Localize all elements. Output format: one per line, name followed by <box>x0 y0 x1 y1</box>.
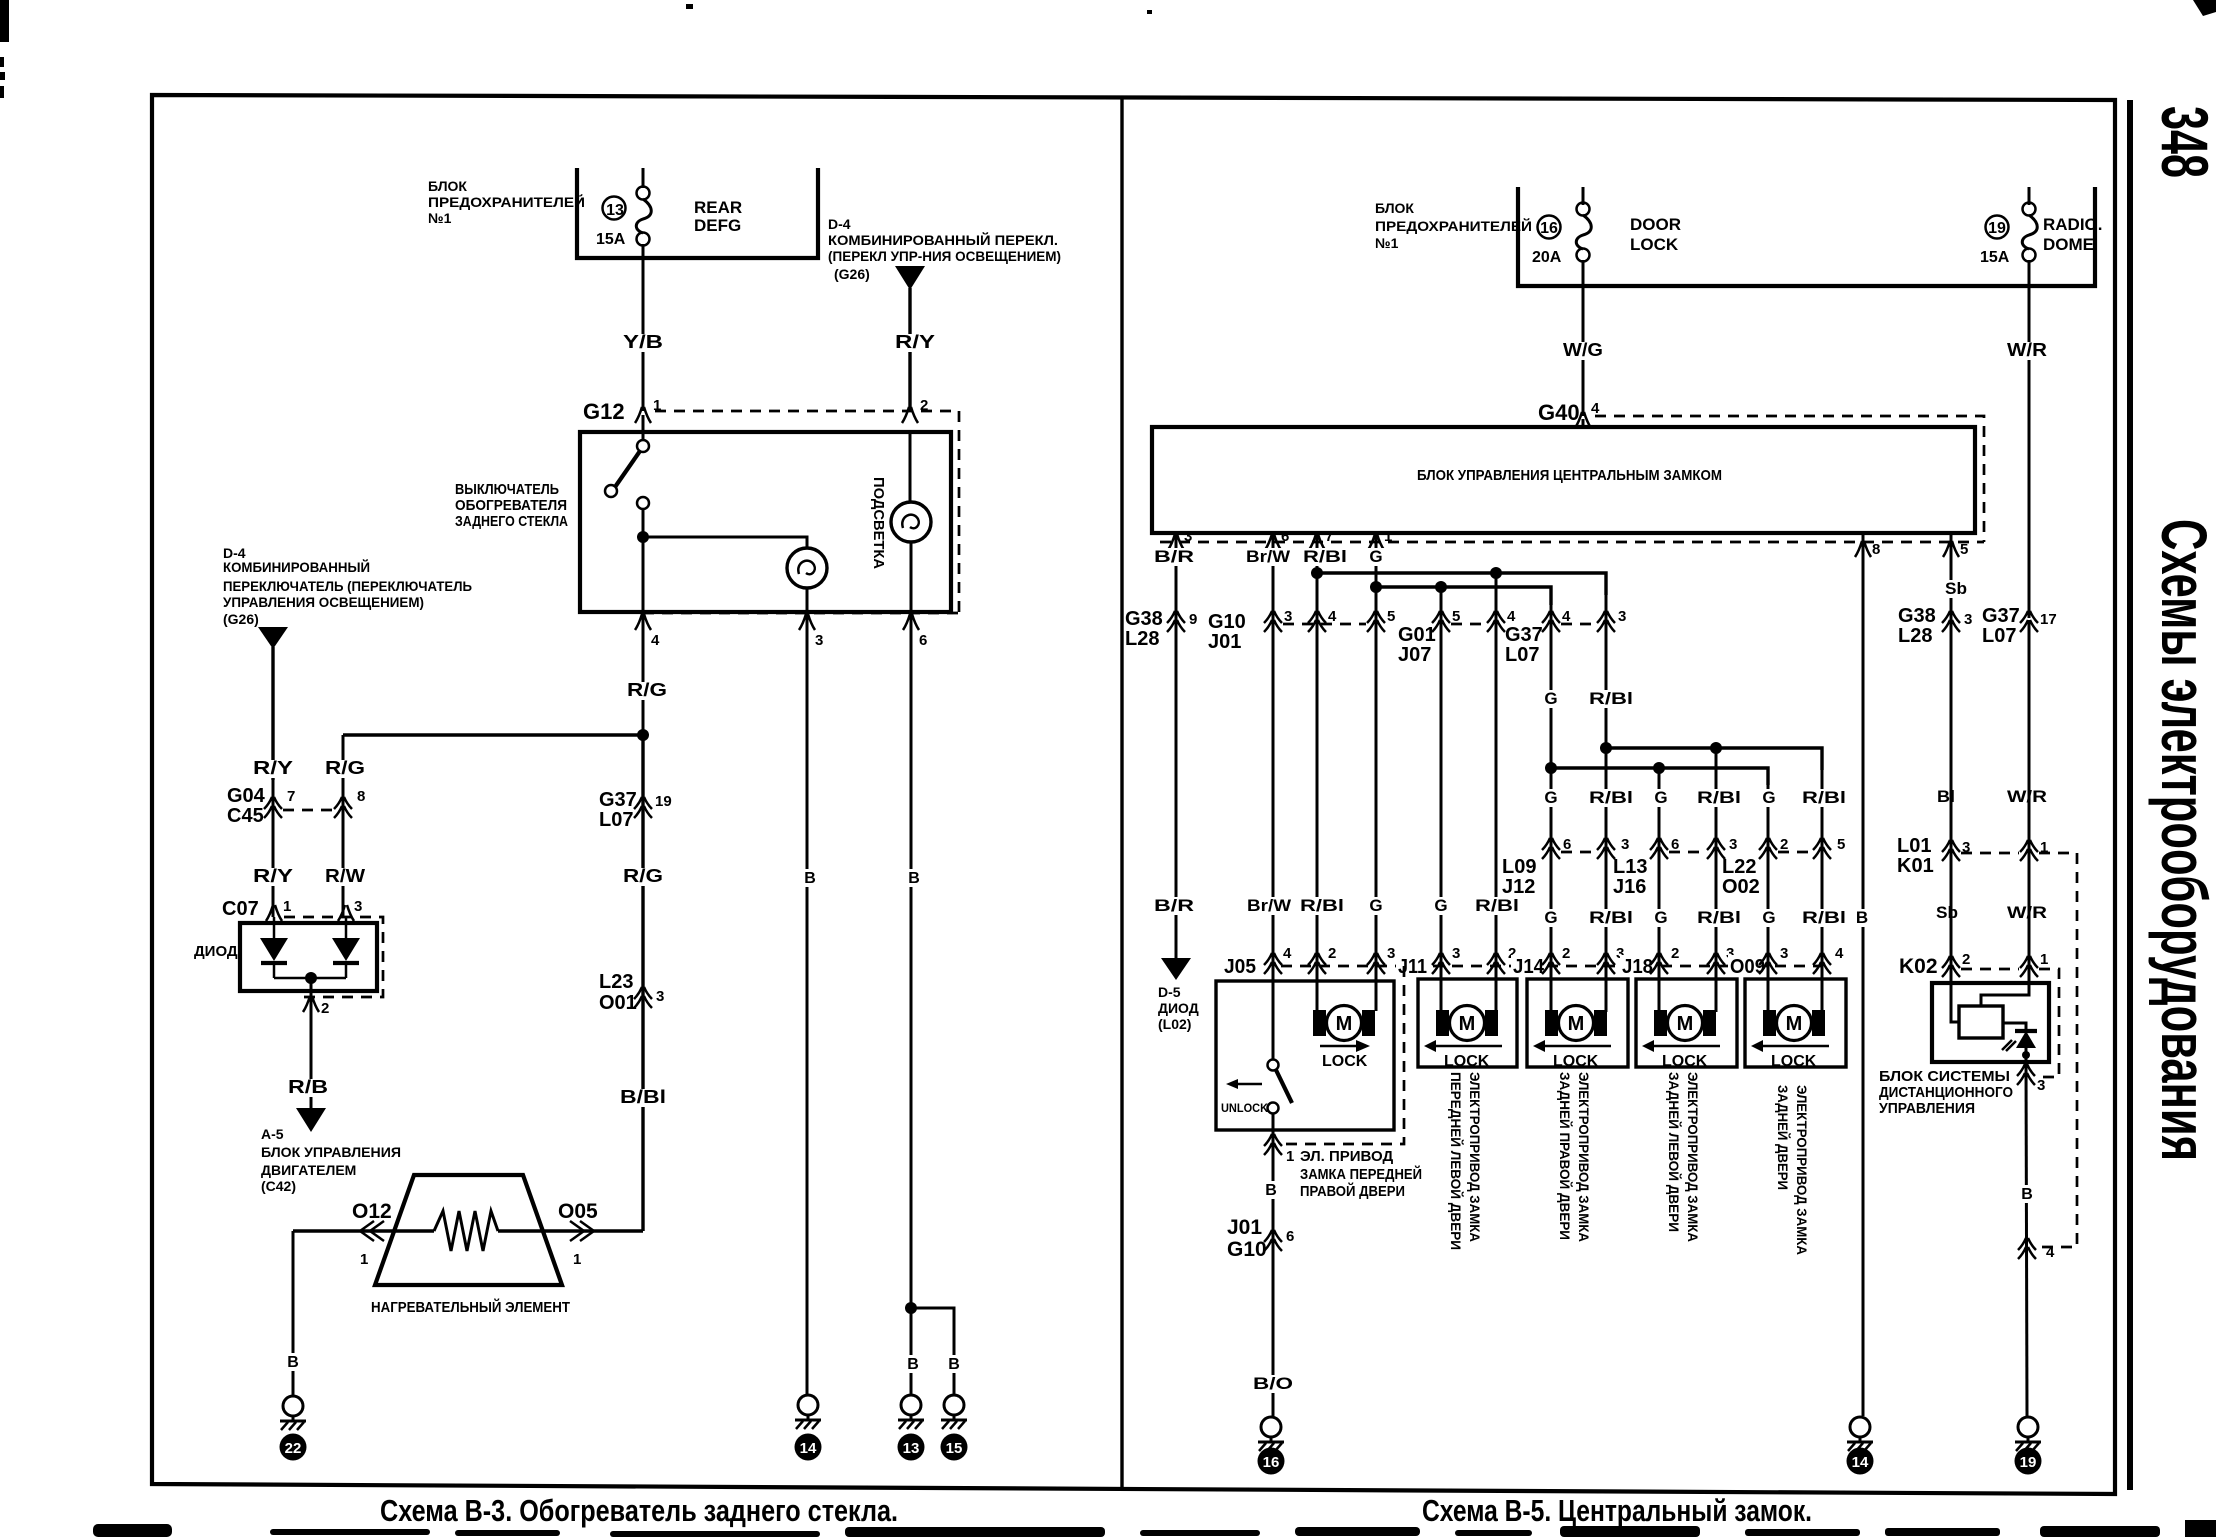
svg-text:G: G <box>1369 547 1382 566</box>
svg-text:ПРЕДОХРАНИТЕЛЕЙ: ПРЕДОХРАНИТЕЛЕЙ <box>1375 217 1532 234</box>
svg-text:(G26): (G26) <box>223 611 259 627</box>
svg-text:Схемы электрооборудования: Схемы электрооборудования <box>2148 519 2216 1161</box>
L22/O02 pin 2 <box>1759 838 1777 859</box>
svg-text:R/W: R/W <box>325 866 365 886</box>
wire G drop (J18 pin2) <box>1658 768 1661 1012</box>
svg-text:15A: 15A <box>1980 249 2010 266</box>
wire label B <box>1260 1181 1282 1199</box>
svg-text:G: G <box>1762 788 1775 807</box>
box pin 6 <box>1265 534 1281 550</box>
L01/K01 pin 1 <box>2020 840 2038 861</box>
svg-text:(C42): (C42) <box>261 1178 296 1194</box>
rotated label actuator rear left door <box>1666 1072 1701 1242</box>
svg-text:G10: G10 <box>1227 1238 1267 1261</box>
svg-text:1: 1 <box>360 1251 368 1268</box>
fuse wire stubs <box>643 168 2029 287</box>
O09 pin 3 <box>1759 953 1777 974</box>
svg-text:G12: G12 <box>583 399 625 424</box>
wire Bl label <box>1934 788 1958 806</box>
svg-text:19: 19 <box>2020 1454 2037 1471</box>
svg-text:B: B <box>2021 1186 2033 1203</box>
motor connector row dashed line <box>1281 965 1822 968</box>
svg-text:ПОДСВЕТКА: ПОДСВЕТКА <box>870 477 887 569</box>
fuse 13 symbol <box>636 187 651 246</box>
svg-text:1: 1 <box>283 898 291 915</box>
svg-text:LOCK: LOCK <box>1553 1053 1599 1070</box>
dashed link K02 and boundary <box>1961 969 2059 1077</box>
svg-text:3: 3 <box>1780 945 1788 962</box>
svg-text:ПРЕДОХРАНИТЕЛЕЙ: ПРЕДОХРАНИТЕЛЕЙ <box>428 193 585 210</box>
connector pin 1 <box>635 407 651 423</box>
svg-text:B/R: B/R <box>1154 547 1194 566</box>
wire B to connector 4 <box>2026 1062 2027 1416</box>
motor box J11 <box>1418 979 1517 1067</box>
svg-text:2: 2 <box>1671 945 1679 962</box>
defogger switch box <box>580 432 951 612</box>
svg-text:ДИОД: ДИОД <box>194 943 238 960</box>
fuse 19 symbol <box>2022 203 2037 262</box>
svg-text:20A: 20A <box>1532 249 1562 266</box>
wire R/Bl drop (O09 pin4) <box>1821 770 1824 1012</box>
svg-text:ЭЛЕКТРОПРИВОД ЗАМКА: ЭЛЕКТРОПРИВОД ЗАМКА <box>1467 1072 1483 1242</box>
svg-text:Y/B: Y/B <box>623 332 663 352</box>
junction dot G bus 2 <box>1370 581 1382 593</box>
svg-text:9: 9 <box>1189 611 1197 628</box>
svg-text:R/Bl: R/Bl <box>1589 689 1633 708</box>
svg-text:4: 4 <box>651 632 660 649</box>
dashed link L01/K01 and boundary <box>1961 853 2077 1247</box>
wire R/Y down from arrow <box>271 647 274 780</box>
L09/J12 pin 3 <box>1597 838 1615 859</box>
svg-text:G: G <box>1762 908 1775 927</box>
svg-text:RADIO.: RADIO. <box>2043 215 2103 234</box>
wire label Y/B <box>620 334 666 352</box>
wire B from pin 6 to ground 13 <box>910 612 913 1396</box>
svg-text:W/R: W/R <box>2007 340 2047 360</box>
wire G drop (O09 pin3) <box>1767 785 1770 1012</box>
svg-text:3: 3 <box>354 898 362 915</box>
svg-text:1: 1 <box>2040 951 2048 968</box>
diode 1 <box>273 917 276 938</box>
svg-text:G40: G40 <box>1538 400 1580 425</box>
svg-text:G: G <box>1434 896 1447 915</box>
G distribution bus 4 <box>1551 768 1768 785</box>
svg-text:Br/W: Br/W <box>1247 896 1292 915</box>
svg-text:3: 3 <box>1964 611 1972 628</box>
wire label W/R <box>2004 342 2050 360</box>
dashed link L22/O02 <box>1778 851 1812 854</box>
svg-text:17: 17 <box>2040 611 2057 628</box>
G distribution bus 2 <box>1376 587 1551 605</box>
svg-text:R/G: R/G <box>627 680 667 700</box>
indicator bulb <box>787 548 827 588</box>
connector G37/L07 pin 19 <box>634 797 652 818</box>
svg-text:J18: J18 <box>1622 956 1653 978</box>
svg-text:ЭЛЕКТРОПРИВОД ЗАМКА: ЭЛЕКТРОПРИВОД ЗАМКА <box>1576 1072 1592 1242</box>
diode 2 <box>345 917 348 938</box>
dashed link G10/J01 <box>1283 623 1366 626</box>
svg-text:6: 6 <box>919 632 927 649</box>
svg-text:3: 3 <box>1621 836 1629 853</box>
svg-text:LOCK: LOCK <box>1771 1053 1817 1070</box>
svg-text:J01: J01 <box>1227 1216 1262 1239</box>
heater resistor zigzag <box>434 1211 498 1251</box>
O09 pin 4 <box>1813 953 1831 974</box>
svg-text:3: 3 <box>2037 1077 2045 1094</box>
svg-text:LOCK: LOCK <box>1630 235 1679 254</box>
branch wire to ground 15 <box>911 1308 954 1396</box>
svg-text:G37: G37 <box>599 789 637 811</box>
svg-text:R/G: R/G <box>325 758 365 778</box>
svg-text:3: 3 <box>1387 945 1395 962</box>
box pin 7 <box>1309 534 1325 550</box>
svg-text:№1: №1 <box>428 210 452 226</box>
motor M rear door <box>1763 1006 1825 1041</box>
G38/L28 right pin 3 <box>1942 611 1960 632</box>
svg-text:LOCK: LOCK <box>1322 1053 1368 1070</box>
svg-text:4: 4 <box>1507 608 1516 625</box>
svg-text:B: B <box>804 870 816 887</box>
wire G <box>1375 533 1378 966</box>
connector O09 name <box>1728 955 1766 977</box>
wire W/G fuse 16 to G40 <box>1582 286 1585 416</box>
ground 16 <box>1258 1417 1284 1451</box>
scan specks top <box>686 4 693 9</box>
main R/G trunk down <box>641 735 644 1231</box>
svg-text:UNLOCK: UNLOCK <box>1221 1101 1268 1115</box>
scan artifact bottom blobs <box>93 1524 172 1537</box>
svg-text:LOCK: LOCK <box>1662 1053 1708 1070</box>
svg-text:C45: C45 <box>227 805 264 827</box>
svg-text:L01: L01 <box>1897 835 1931 857</box>
svg-text:19: 19 <box>1988 220 2006 237</box>
svg-text:УПРАВЛЕНИЯ: УПРАВЛЕНИЯ <box>1879 1100 1975 1117</box>
switch contact bottom <box>637 497 649 509</box>
connector pin 2 <box>902 407 918 423</box>
divider between schematic B-3 and B-5 <box>1120 97 1123 1488</box>
wire W/R label <box>2004 788 2050 806</box>
svg-text:G38: G38 <box>1125 608 1163 630</box>
svg-text:4: 4 <box>1562 608 1571 625</box>
svg-text:ЗАДНЕЙ ДВЕРИ: ЗАДНЕЙ ДВЕРИ <box>1775 1085 1792 1190</box>
svg-text:2: 2 <box>1328 945 1336 962</box>
svg-text:B: B <box>1265 1182 1277 1199</box>
svg-text:БЛОК УПРАВЛЕНИЯ ЦЕНТРАЛЬНЫМ ЗА: БЛОК УПРАВЛЕНИЯ ЦЕНТРАЛЬНЫМ ЗАМКОМ <box>1417 467 1722 484</box>
wire label R/G <box>624 682 670 700</box>
motor box J14 <box>1527 979 1628 1067</box>
svg-text:LOCK: LOCK <box>1444 1053 1490 1070</box>
wire labels row above L09 connectors <box>1540 789 1562 807</box>
switch arm pivot circle <box>605 485 617 497</box>
dashed link G01/J07 <box>1451 623 1486 626</box>
svg-text:L22: L22 <box>1722 856 1756 878</box>
svg-text:348: 348 <box>2148 106 2216 178</box>
G37/L07 pin 4 <box>1542 611 1560 632</box>
fuse 16 circled number <box>1538 216 1561 239</box>
svg-text:НАГРЕВАТЕЛЬНЫЙ ЭЛЕМЕНТ: НАГРЕВАТЕЛЬНЫЙ ЭЛЕМЕНТ <box>371 1298 570 1316</box>
wire R/Y from D-4 arrow to switch pin 2 <box>908 288 911 411</box>
svg-text:W/R: W/R <box>2007 903 2047 922</box>
wire R/Bl drop (J14 pin3) <box>1605 590 1608 1012</box>
svg-text:ЭЛЕКТРОПРИВОД ЗАМКА: ЭЛЕКТРОПРИВОД ЗАМКА <box>1794 1085 1810 1255</box>
dashed connector outline of G12 <box>643 411 959 613</box>
dashed connector boundary right of J05 <box>1284 966 1404 1144</box>
svg-text:ДИСТАНЦИОННОГО: ДИСТАНЦИОННОГО <box>1879 1084 2013 1101</box>
motor M front right <box>1313 1006 1375 1041</box>
svg-text:K02: K02 <box>1899 955 1938 978</box>
connector J18 name <box>1620 955 1654 977</box>
svg-text:G01: G01 <box>1398 624 1436 646</box>
svg-text:G38: G38 <box>1898 605 1936 627</box>
svg-text:ОБОГРЕВАТЕЛЯ: ОБОГРЕВАТЕЛЯ <box>455 497 567 514</box>
connector pin 4 below box <box>635 614 651 630</box>
connector J11 name <box>1396 955 1429 977</box>
svg-text:R/B: R/B <box>288 1077 328 1097</box>
illumination bulb (podsvetka) <box>891 502 931 542</box>
connector pin 3 below box <box>799 614 815 630</box>
svg-text:3: 3 <box>1184 528 1192 545</box>
D-4 feed arrow (solid triangle) <box>895 266 925 290</box>
ground 15 <box>941 1395 967 1429</box>
wire bulb to pin 3 <box>806 588 809 612</box>
svg-text:16: 16 <box>1540 220 1558 237</box>
wire R/Bl drop (J11 pin2) <box>1495 573 1498 966</box>
svg-text:7: 7 <box>287 788 295 805</box>
wire R/G from pin 4 <box>642 612 645 735</box>
wire label R/B <box>285 1079 331 1097</box>
fuse box outline <box>1518 187 2095 286</box>
svg-text:R/Bl: R/Bl <box>1589 788 1633 807</box>
svg-text:ДИОД: ДИОД <box>1158 1000 1199 1016</box>
svg-text:K01: K01 <box>1897 855 1934 877</box>
svg-text:R/Bl: R/Bl <box>1475 896 1519 915</box>
internal wire to diode <box>2003 1023 2026 1031</box>
rotated label actuator rear door <box>1775 1085 1810 1255</box>
svg-text:2: 2 <box>321 1000 329 1017</box>
svg-text:БЛОК: БЛОК <box>428 178 467 194</box>
svg-text:B: B <box>287 1354 299 1371</box>
ground 22 <box>280 1396 306 1430</box>
svg-text:Sb: Sb <box>1945 579 1967 598</box>
ground 14 right <box>1847 1417 1873 1451</box>
svg-text:G37: G37 <box>1982 605 2020 627</box>
svg-text:R/Y: R/Y <box>253 758 293 778</box>
heater element trapezoid <box>375 1175 562 1285</box>
svg-text:14: 14 <box>800 1440 817 1457</box>
svg-text:L07: L07 <box>1982 625 2016 647</box>
svg-text:5: 5 <box>1960 541 1968 558</box>
G01/J07 pin 5 <box>1432 611 1450 632</box>
svg-text:1: 1 <box>1286 1148 1294 1165</box>
svg-text:ДВИГАТЕЛЕМ: ДВИГАТЕЛЕМ <box>261 1162 356 1178</box>
wire B pin 8 <box>1862 533 1865 1416</box>
key switch wire <box>1272 966 1275 1060</box>
motor box J18 <box>1636 979 1737 1067</box>
svg-text:R/Bl: R/Bl <box>1589 908 1633 927</box>
key switch contact <box>1268 1103 1279 1114</box>
svg-text:ПЕРЕКЛЮЧАТЕЛЬ (ПЕРЕКЛЮЧАТЕЛЬ: ПЕРЕКЛЮЧАТЕЛЬ (ПЕРЕКЛЮЧАТЕЛЬ <box>223 578 472 594</box>
fuse 19 circled number <box>1986 216 2009 239</box>
svg-text:1: 1 <box>1384 528 1392 545</box>
svg-text:B/R: B/R <box>1154 896 1194 915</box>
L13/J16 pin 3 <box>1707 838 1725 859</box>
G37/L07 right pin 17 <box>2020 611 2038 632</box>
svg-text:8: 8 <box>1872 541 1880 558</box>
svg-text:2: 2 <box>1562 945 1570 962</box>
svg-text:R/Y: R/Y <box>253 866 293 886</box>
junction dot on bus 3 <box>1710 742 1722 754</box>
svg-text:ЗАДНЕЙ ЛЕВОЙ ДВЕРИ: ЗАДНЕЙ ЛЕВОЙ ДВЕРИ <box>1666 1072 1683 1232</box>
switch arm <box>615 451 640 487</box>
fuse box No1 outline <box>577 168 818 258</box>
wire to J05 pin 1 <box>1272 1113 1275 1227</box>
svg-text:4: 4 <box>1835 945 1844 962</box>
L13/J16 pin 6 <box>1650 838 1668 859</box>
J11 pin 3 <box>1432 953 1450 974</box>
svg-text:4: 4 <box>1591 400 1600 417</box>
internal wire pin1 <box>1981 965 2029 1006</box>
svg-text:(L02): (L02) <box>1158 1016 1191 1032</box>
wire G drop (J14 pin2) <box>1550 595 1553 1012</box>
sidebar separator thick line <box>2127 100 2133 1490</box>
connector L23/O01 pin 3 <box>634 987 652 1008</box>
dashed outline of central lock unit connector <box>1160 416 1984 542</box>
svg-text:O01: O01 <box>599 992 637 1014</box>
connector G04/C45 pin 8 <box>334 797 352 818</box>
svg-text:ЭЛ. ПРИВОД: ЭЛ. ПРИВОД <box>1300 1148 1393 1165</box>
svg-text:ЭЛЕКТРОПРИВОД ЗАМКА: ЭЛЕКТРОПРИВОД ЗАМКА <box>1685 1072 1701 1242</box>
heater feed wire left <box>293 1229 434 1232</box>
dashed outline diode connector <box>284 917 383 997</box>
svg-text:R/G: R/G <box>623 866 663 886</box>
C07 pin 3 <box>338 905 354 921</box>
motor M rear right <box>1545 1006 1607 1041</box>
motor M rear left <box>1654 1006 1716 1041</box>
wire labels G / R/Bl above bus 3-4 <box>1540 690 1562 708</box>
svg-text:8: 8 <box>357 788 365 805</box>
J05 pin 2 <box>1308 953 1326 974</box>
wire label R/Y <box>250 760 296 778</box>
ground 14 <box>795 1395 821 1429</box>
svg-text:J14: J14 <box>1513 956 1545 978</box>
G37/L07 pin 3 <box>1597 611 1615 632</box>
svg-text:G: G <box>1544 689 1557 708</box>
svg-text:R/Bl: R/Bl <box>1697 908 1741 927</box>
junction dot R/G branch <box>637 729 649 741</box>
svg-text:ВЫКЛЮЧАТЕЛЬ: ВЫКЛЮЧАТЕЛЬ <box>455 481 559 498</box>
svg-text:16: 16 <box>1263 1454 1280 1471</box>
svg-text:D-5: D-5 <box>1158 984 1181 1000</box>
wire W/R continue <box>2028 620 2031 965</box>
svg-text:3: 3 <box>1618 608 1626 625</box>
svg-text:J05: J05 <box>1224 956 1256 978</box>
svg-text:J01: J01 <box>1208 631 1241 653</box>
C07 pin 1 <box>266 905 282 921</box>
wire B to ground 22 <box>292 1231 295 1397</box>
connector G04/C45 pin 7 <box>264 797 282 818</box>
svg-text:Sb: Sb <box>1936 903 1958 922</box>
G10/J01 pin 5 <box>1367 611 1385 632</box>
svg-text:R/Bl: R/Bl <box>1697 788 1741 807</box>
svg-text:1: 1 <box>573 1251 581 1268</box>
svg-text:3: 3 <box>815 632 823 649</box>
svg-text:Br/W: Br/W <box>1246 547 1291 566</box>
L01/K01 pin 3 <box>1942 840 1960 861</box>
svg-text:22: 22 <box>285 1440 302 1457</box>
svg-text:БЛОК СИСТЕМЫ: БЛОК СИСТЕМЫ <box>1879 1068 2010 1085</box>
connector G38/L28 pin 9 <box>1167 611 1185 632</box>
junction node in switch <box>637 531 649 543</box>
svg-text:ЗАДНЕГО СТЕКЛА: ЗАДНЕГО СТЕКЛА <box>455 513 568 530</box>
diode common wire <box>274 977 346 980</box>
svg-text:R/Bl: R/Bl <box>1300 896 1344 915</box>
wire R/Bl drop (J18 pin3) <box>1715 748 1718 1012</box>
svg-text:G37: G37 <box>1505 624 1543 646</box>
box pin 1 <box>1368 534 1384 550</box>
IR arrow squiggle <box>2002 1040 2016 1051</box>
connector G40 pin 4 <box>1575 412 1591 428</box>
J18 pin 2 <box>1650 953 1668 974</box>
G01/J07 pin 4 <box>1487 611 1505 632</box>
svg-text:5: 5 <box>1452 608 1460 625</box>
key switch arm <box>1276 1070 1292 1103</box>
svg-text:3: 3 <box>656 988 664 1005</box>
svg-text:O02: O02 <box>1722 876 1760 898</box>
lock arrow right <box>1320 1045 1358 1048</box>
J05 pin 4 <box>1264 953 1282 974</box>
svg-text:19: 19 <box>655 793 672 810</box>
svg-text:L28: L28 <box>1898 625 1932 647</box>
dashed link L13/J16 <box>1669 851 1706 854</box>
svg-text:2: 2 <box>1962 951 1970 968</box>
svg-text:БЛОК: БЛОК <box>1375 200 1414 216</box>
L22/O02 pin 5 <box>1813 838 1831 859</box>
L09/J12 pin 6 <box>1542 838 1560 859</box>
svg-text:O05: O05 <box>558 1200 598 1223</box>
svg-text:B: B <box>907 1356 919 1373</box>
wire W/R fuse 19 down <box>2028 286 2031 618</box>
junction dot bus 4 <box>1545 762 1557 774</box>
wire label R/Y <box>892 334 938 352</box>
svg-text:13: 13 <box>606 202 624 219</box>
wire label W/G <box>1560 342 1606 360</box>
dashed link L09/J12 <box>1561 851 1596 854</box>
ground 19 <box>2015 1417 2041 1451</box>
wire Br/W <box>1272 533 1275 966</box>
K02 pin 1 <box>2020 956 2038 977</box>
rotated label actuator rear right door <box>1557 1072 1592 1242</box>
C07 pin 2 <box>303 996 319 1012</box>
svg-text:R/Bl: R/Bl <box>1802 908 1846 927</box>
svg-text:БЛОК УПРАВЛЕНИЯ: БЛОК УПРАВЛЕНИЯ <box>261 1144 401 1160</box>
wire Sb continue <box>1950 620 1953 965</box>
svg-text:DEFG: DEFG <box>694 216 741 235</box>
svg-text:УПРАВЛЕНИЯ ОСВЕЩЕНИЕМ): УПРАВЛЕНИЯ ОСВЕЩЕНИЕМ) <box>223 594 424 610</box>
svg-text:J07: J07 <box>1398 644 1431 666</box>
diode junction dot <box>305 972 317 984</box>
svg-text:6: 6 <box>1671 836 1679 853</box>
wire labels row above motor connectors <box>1151 897 1197 915</box>
junction dot bus 3 <box>1600 742 1612 754</box>
svg-text:B: B <box>948 1356 960 1373</box>
svg-text:W/R: W/R <box>2007 787 2047 806</box>
wire from switch contact down <box>642 509 645 612</box>
svg-text:15A: 15A <box>596 231 626 248</box>
connector J05 name <box>1222 955 1258 977</box>
connector pin 6 below box <box>903 614 919 630</box>
svg-text:5: 5 <box>1837 836 1845 853</box>
svg-text:DOME: DOME <box>2043 235 2094 254</box>
